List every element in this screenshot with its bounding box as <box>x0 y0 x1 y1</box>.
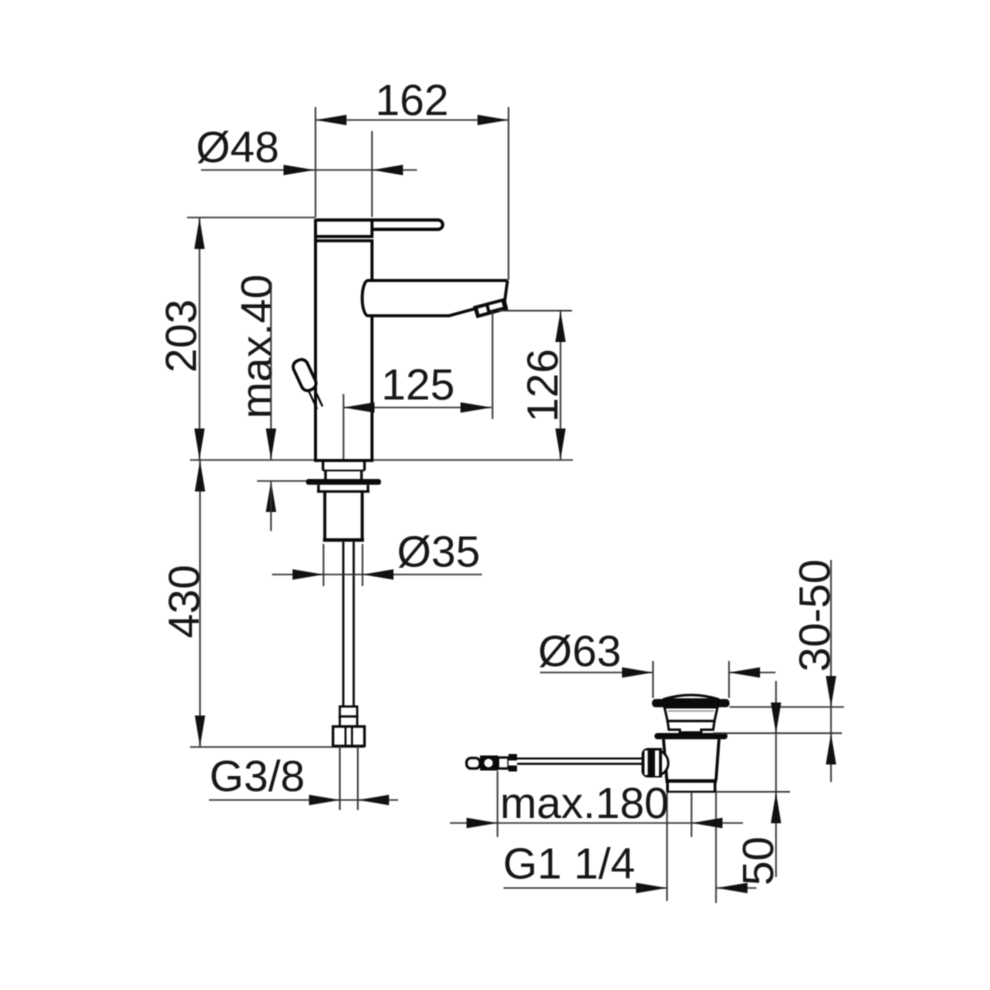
handle cap bottom <box>314 235 374 238</box>
dim max.180 line <box>450 822 743 824</box>
svg-text:Ø63: Ø63 <box>538 627 621 676</box>
dim 50 arrow up <box>771 792 781 823</box>
neck below body <box>323 461 365 471</box>
dim 430 arrow bottom <box>195 716 205 747</box>
ball housing slit 2 <box>655 751 659 777</box>
extension line tailpipe left <box>666 792 668 901</box>
dim O63 line right <box>729 672 776 674</box>
svg-text:Ø48: Ø48 <box>196 123 279 172</box>
extension line top of faucet <box>187 217 316 219</box>
dim max.180 arrow left <box>467 818 498 828</box>
shank bottom edge <box>323 538 364 541</box>
waste body left edge <box>664 739 667 780</box>
waste sink flange <box>655 733 728 739</box>
threaded shank right <box>361 492 364 541</box>
dim 125 line <box>344 407 492 409</box>
extension line rod tip <box>497 771 499 837</box>
cap neck trapezoid <box>665 707 718 721</box>
side pull-rod knob <box>291 357 327 410</box>
neck second ring <box>326 471 362 480</box>
svg-text:Ø35: Ø35 <box>397 528 480 577</box>
dim 50 line <box>775 681 777 877</box>
dim 162 arrow left <box>316 115 347 125</box>
drain rod upper line <box>517 757 642 759</box>
extension line brim bottom level <box>730 706 845 708</box>
extension line O35 left <box>323 544 325 586</box>
hose nut facet line 1 <box>345 727 347 747</box>
dim max.40 arrow up <box>266 481 276 512</box>
svg-text:max.40: max.40 <box>233 274 282 418</box>
drain pull rod neck piece <box>498 758 509 769</box>
extension line left of 162 at body edge <box>315 107 317 217</box>
extension line faucet axis for 125 <box>343 394 345 459</box>
svg-text:G1 1/4: G1 1/4 <box>503 840 635 889</box>
faucet body left edge <box>314 219 317 461</box>
dim 203 arrow bottom <box>194 429 204 460</box>
tailpipe bottom edge <box>667 791 717 793</box>
extension line max.40 lower reference <box>257 480 309 482</box>
svg-text:G3/8: G3/8 <box>210 752 305 801</box>
aerator slit left <box>478 306 488 314</box>
dim 203 arrow top <box>194 218 204 249</box>
aerator body <box>473 298 508 319</box>
extension line O63 right <box>728 661 730 698</box>
dim 30-50 arrow up <box>826 734 836 765</box>
svg-text:30-50: 30-50 <box>791 559 840 672</box>
hose fitting upper box <box>340 707 357 717</box>
tailpipe right edge <box>714 781 717 792</box>
dim max.40 upper line <box>270 282 272 460</box>
neck bottom line <box>323 470 365 472</box>
dim O48 line <box>201 169 417 171</box>
dim 162 line <box>316 119 509 121</box>
handle cap left edge <box>314 219 317 237</box>
dim 203 line <box>199 218 201 461</box>
dim G1 1/4 line right <box>717 887 757 889</box>
drain pull rod knob hole <box>484 759 493 768</box>
handle lever and cap top <box>316 220 443 229</box>
dim 30-50 arrow down <box>826 676 836 707</box>
drain pull rod flange slit <box>509 761 518 766</box>
dim O48 arrow right <box>372 165 403 175</box>
dim 30-50 line <box>830 560 832 782</box>
cap neck shading line <box>668 710 714 712</box>
dim O63 line left <box>540 672 653 674</box>
threaded shank left <box>323 492 326 541</box>
dim O35 arrow right <box>363 569 394 579</box>
dim max.40 arrow down <box>266 429 276 460</box>
extension line O48 right at body edge <box>371 131 373 217</box>
faucet body right edge upper <box>371 242 374 280</box>
extension line O63 left <box>652 661 654 698</box>
extension line aerator level for 126 <box>498 310 572 312</box>
hose nut <box>333 727 365 747</box>
handle cap right edge <box>371 220 374 237</box>
extension line O35 right <box>362 544 364 586</box>
hose fitting lower box <box>340 717 357 727</box>
hose nut facet line 2 <box>351 727 353 747</box>
dim G3/8 arrow left <box>309 795 340 805</box>
faucet body right edge lower <box>371 317 374 461</box>
mounting washer flange <box>306 479 381 485</box>
hose thread right <box>357 746 359 810</box>
svg-text:203: 203 <box>157 299 206 372</box>
faucet body bottom edge <box>314 459 374 462</box>
cap dome <box>663 695 719 700</box>
supply hose right line <box>353 542 355 707</box>
dim 126 arrow top <box>555 311 565 342</box>
dim G3/8 line <box>209 799 398 801</box>
dim max.180 arrow right <box>692 818 723 828</box>
dim O35 line <box>272 574 482 576</box>
svg-text:max.180: max.180 <box>500 779 669 828</box>
svg-text:125: 125 <box>381 361 454 410</box>
dim 126 line <box>560 311 562 460</box>
extension line aerator vertical for 125 <box>492 311 494 419</box>
cap brim <box>652 699 730 707</box>
extension line waste outlet level <box>716 791 790 793</box>
deck mounting surface line <box>190 459 573 461</box>
dim 162 arrow right <box>478 115 509 125</box>
aerator slit right <box>489 302 503 310</box>
dim G1 1/4 arrow left <box>636 883 667 893</box>
ball housing slit 1 <box>645 751 648 776</box>
dim G1 1/4 arrow right <box>717 883 748 893</box>
dim O48 arrow left <box>284 165 315 175</box>
dim 125 arrow right <box>461 402 492 412</box>
dim O63 arrow right <box>729 667 760 677</box>
dim O63 arrow left <box>622 667 653 677</box>
dim 125 arrow left <box>344 402 375 412</box>
collar bottom line <box>317 490 370 492</box>
plug lower part <box>668 721 715 733</box>
extension line tailpipe axis <box>691 792 693 837</box>
dim 126 arrow bottom <box>555 429 565 460</box>
svg-text:430: 430 <box>160 565 209 638</box>
drain pull rod knob <box>480 756 498 771</box>
dim G3/8 arrow right <box>358 795 389 805</box>
extension line tailpipe right <box>715 792 717 903</box>
drain pull rod tip cylinder <box>467 758 481 769</box>
extension line hose end <box>190 746 364 748</box>
cap groove line <box>314 239 374 242</box>
hose thread left <box>339 746 341 810</box>
drain pull rod flange piece <box>509 754 518 772</box>
spout outline <box>362 281 507 316</box>
ball joint housing <box>642 748 663 778</box>
extension line right of 162 at spout tip <box>508 107 510 280</box>
extension line flange top level <box>713 732 842 734</box>
waste body right edge <box>716 739 719 780</box>
dim max.40 lower line <box>270 481 272 531</box>
waste body bottom edge <box>666 779 718 782</box>
dim 430 line <box>199 460 201 747</box>
ball joint <box>643 750 669 776</box>
dim 430 arrow top <box>195 461 205 492</box>
dim O35 arrow left <box>293 569 324 579</box>
tailpipe left edge <box>666 781 669 792</box>
dim 50 arrow down <box>771 703 781 734</box>
dim G1 1/4 line left <box>504 887 668 889</box>
drain rod lower line <box>517 763 642 765</box>
collar under washer <box>319 485 369 492</box>
svg-text:162: 162 <box>375 76 448 125</box>
supply hose left line <box>342 542 344 707</box>
